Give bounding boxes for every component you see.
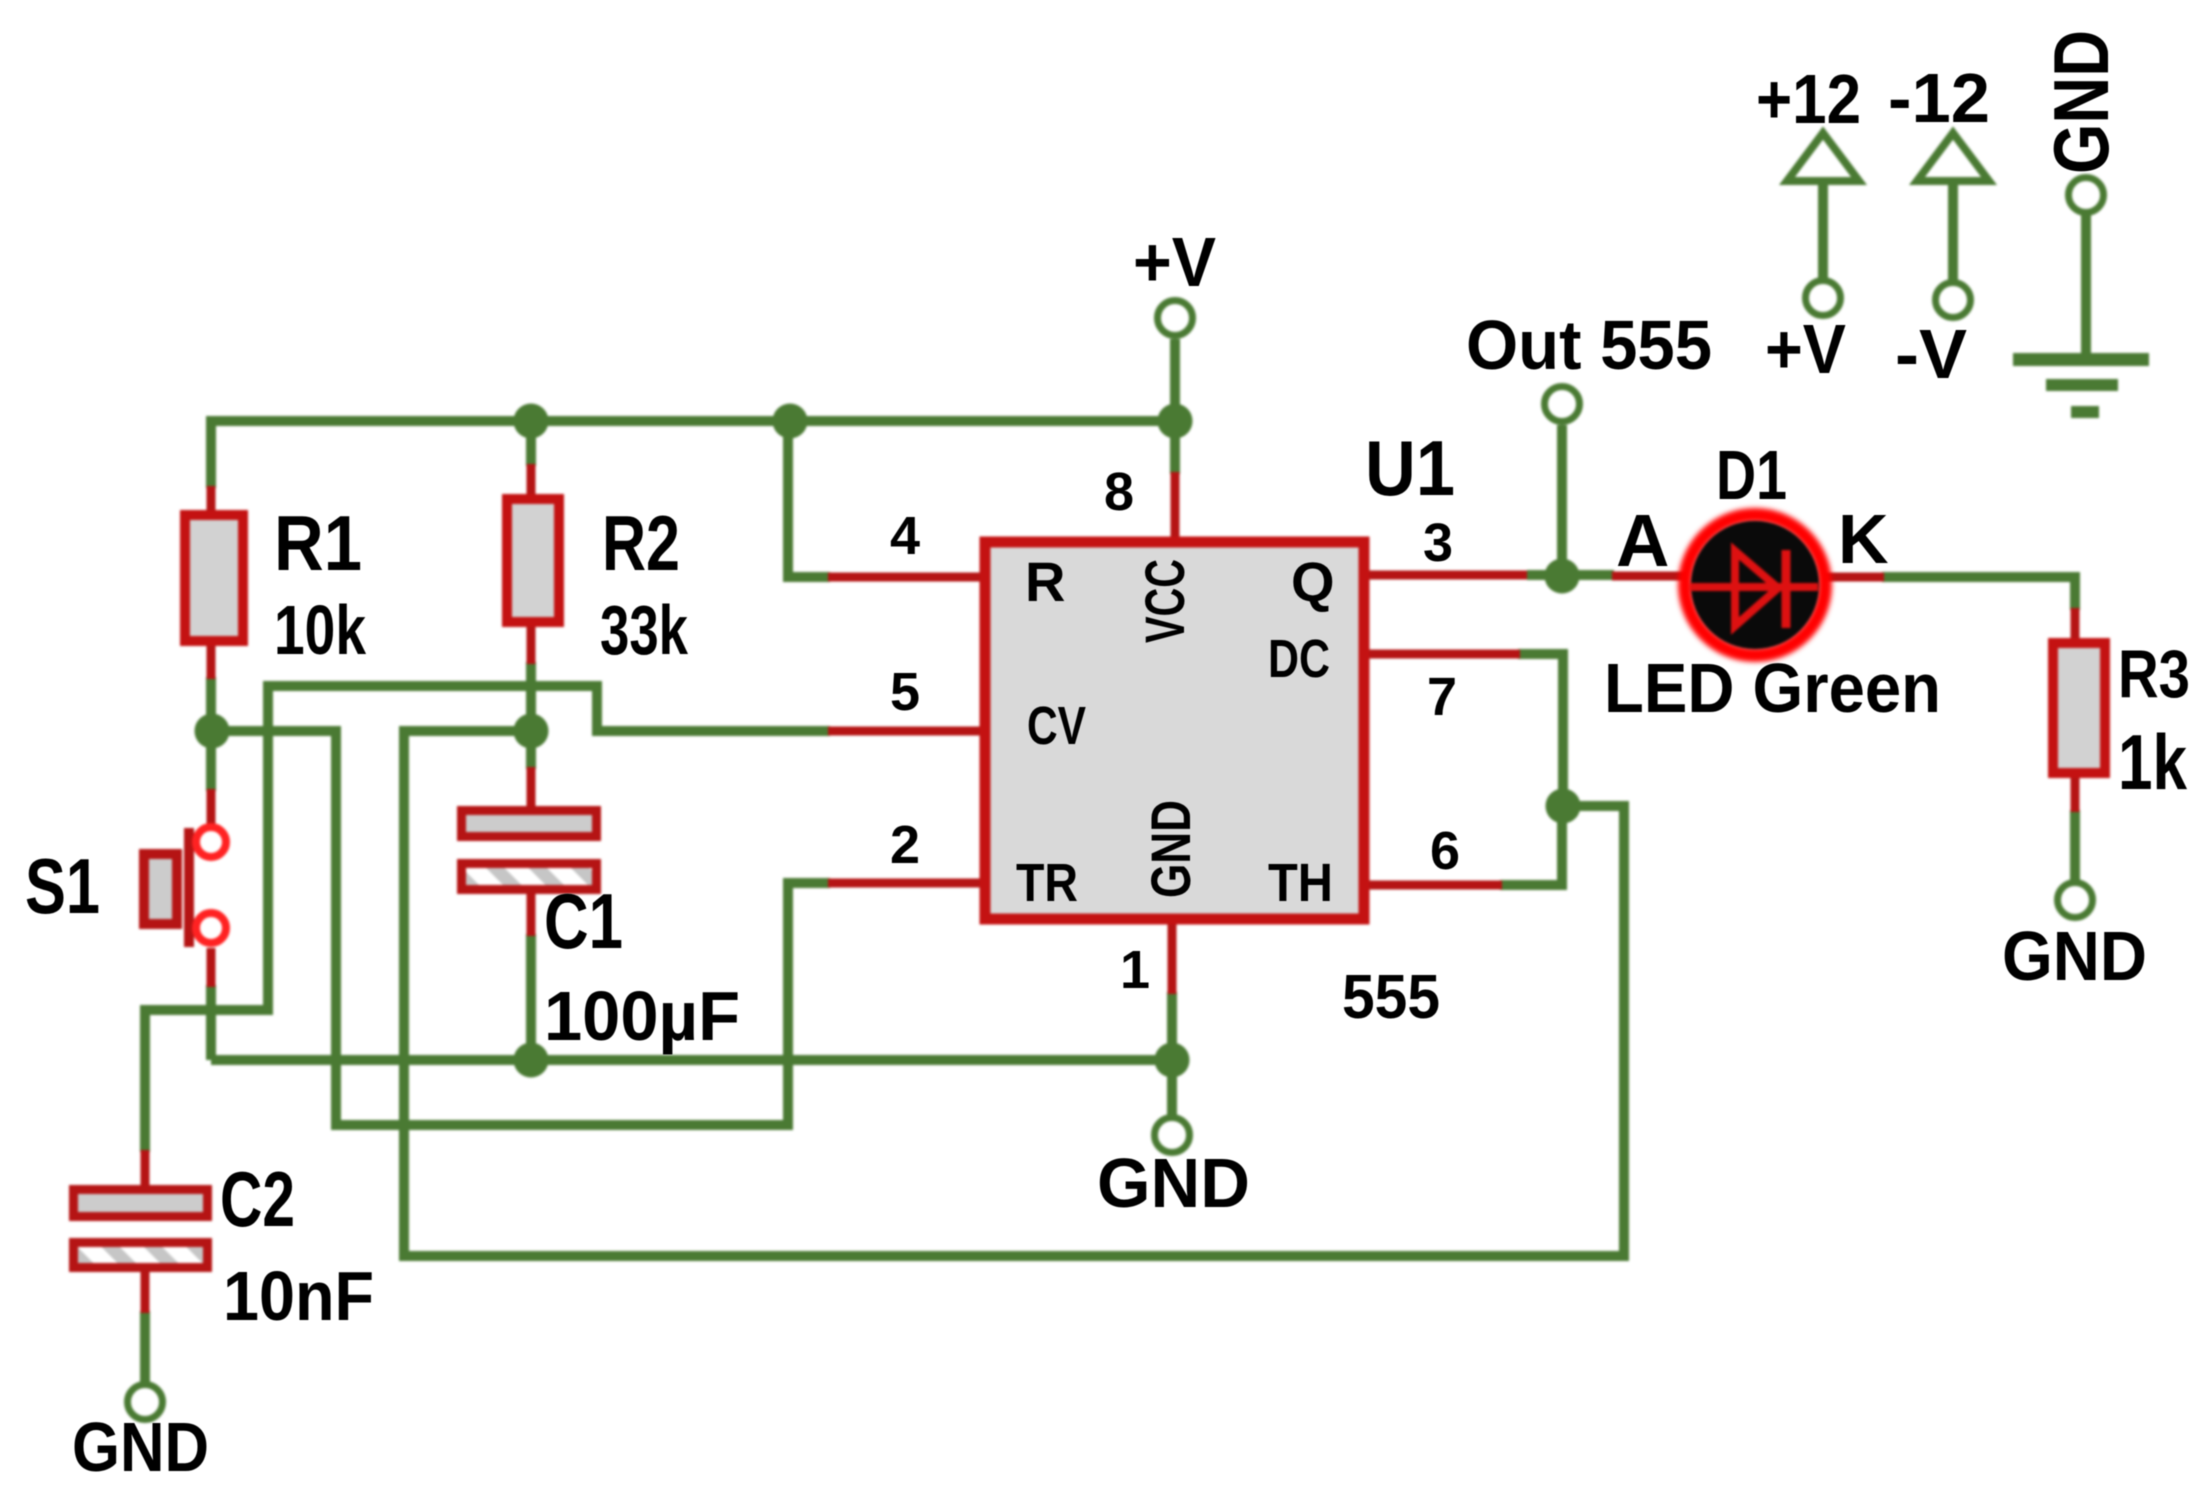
svg-text:555: 555 <box>1342 963 1440 1032</box>
svg-text:K: K <box>1838 500 1889 578</box>
svg-text:A: A <box>1616 499 1669 582</box>
svg-text:DC: DC <box>1268 629 1330 689</box>
svg-text:GND: GND <box>2002 917 2147 995</box>
svg-text:3: 3 <box>1423 513 1453 573</box>
stub LED cathode <box>1826 573 1884 582</box>
wire +V stem to pin 8 <box>1170 339 1180 474</box>
stub C1 top <box>527 767 536 808</box>
power +12 symbol <box>1818 182 1828 279</box>
wire R1 top <box>206 416 216 488</box>
svg-text:10nF: 10nF <box>223 1257 374 1335</box>
stub pin 2 <box>828 879 982 888</box>
svg-text:Out 555: Out 555 <box>1466 306 1712 384</box>
svg-text:100µF: 100µF <box>544 977 740 1055</box>
svg-text:1: 1 <box>1120 940 1150 1000</box>
switch S1 bottom contact <box>196 913 226 943</box>
power -12 symbol <box>1948 182 1958 281</box>
svg-text:R2: R2 <box>602 499 680 587</box>
svg-text:GND: GND <box>1139 800 1202 898</box>
svg-text:R: R <box>1025 550 1065 613</box>
stub R1 bottom <box>207 644 216 679</box>
switch S1 actuator bar <box>184 828 194 947</box>
wire S1/C1 ground rail <box>211 1055 1172 1065</box>
wire Q output green <box>1527 570 1614 580</box>
wire pin1 GND <box>1167 992 1177 1116</box>
wire Out 555 stem <box>1557 425 1567 576</box>
terminal +V top center <box>1158 301 1193 336</box>
stub R1 top <box>207 486 216 514</box>
svg-text:-12: -12 <box>1888 59 1990 137</box>
stub C2 top <box>141 1150 150 1187</box>
terminal GND C2 <box>128 1385 163 1420</box>
wire R2 junction to TH route <box>404 731 1624 1256</box>
ground symbol top right <box>2081 215 2091 366</box>
svg-text:R1: R1 <box>274 499 362 587</box>
svg-text:+V: +V <box>1765 310 1846 388</box>
wire S1 bottom <box>206 985 216 1060</box>
svg-text:S1: S1 <box>25 842 100 930</box>
svg-text:CV: CV <box>1027 696 1086 756</box>
switch S1 body <box>144 854 177 924</box>
stub R3 top <box>2071 608 2080 642</box>
svg-text:TR: TR <box>1016 853 1078 913</box>
stub pin 1 <box>1168 921 1177 994</box>
svg-text:C1: C1 <box>544 877 623 965</box>
svg-text:D1: D1 <box>1716 436 1787 514</box>
svg-text:VCC: VCC <box>1133 559 1196 643</box>
svg-text:GND: GND <box>2037 30 2125 174</box>
switch S1 top contact <box>196 827 226 857</box>
stub R2 top <box>527 464 536 498</box>
svg-text:+V: +V <box>1133 223 1216 301</box>
svg-text:5: 5 <box>890 662 920 722</box>
stub C2 bottom <box>141 1270 150 1313</box>
svg-text:7: 7 <box>1427 667 1457 727</box>
resistor R3 <box>2053 643 2105 773</box>
stub LED anode <box>1612 572 1684 581</box>
stub S1 top <box>207 789 216 824</box>
svg-text:33k: 33k <box>600 591 688 669</box>
svg-text:8: 8 <box>1104 462 1134 522</box>
stub pin 5 <box>828 727 982 736</box>
wire TH to junction <box>1500 806 1562 885</box>
IC U1 555 body <box>985 542 1364 919</box>
wire C2 bottom to GND <box>140 1311 150 1383</box>
stub C1 bottom <box>527 892 536 936</box>
stub R3 bottom <box>2071 776 2080 812</box>
wire LED K to R3 <box>1882 577 2075 610</box>
LED D1 <box>1685 515 1825 655</box>
stub pin 8 <box>1171 472 1180 540</box>
svg-text:U1: U1 <box>1365 424 1455 512</box>
svg-text:4: 4 <box>890 506 920 566</box>
wire DC to junction <box>1518 654 1563 806</box>
svg-text:1k: 1k <box>2118 718 2187 806</box>
resistor R1 <box>185 515 243 641</box>
svg-text:+12: +12 <box>1756 60 1861 138</box>
junction dots <box>514 404 549 439</box>
svg-text:C2: C2 <box>220 1155 295 1243</box>
terminal Out 555 <box>1545 387 1580 422</box>
svg-text:GND: GND <box>1097 1144 1250 1222</box>
svg-text:-V: -V <box>1895 315 1967 393</box>
capacitor C1 bottom plate (hatched) <box>462 864 597 890</box>
terminal GND R3 <box>2058 883 2093 918</box>
wire R2 bottom <box>526 662 536 731</box>
stub pin 7 <box>1368 650 1520 659</box>
wire R1 junction to TR route <box>211 731 830 1125</box>
stub R2 bottom <box>527 625 536 664</box>
capacitor C1 top plate <box>462 811 597 837</box>
stub S1 bottom <box>207 948 216 987</box>
wire top +V rail <box>211 416 1175 426</box>
wire R2 top <box>526 421 536 466</box>
wire pin4 reset vertical <box>788 421 830 577</box>
svg-text:6: 6 <box>1430 821 1460 881</box>
capacitor C2 bottom plate (hatched) <box>74 1243 208 1268</box>
svg-text:10k: 10k <box>274 591 366 669</box>
svg-text:TH: TH <box>1268 853 1333 913</box>
svg-text:Q: Q <box>1291 550 1335 613</box>
svg-text:2: 2 <box>890 815 920 875</box>
svg-text:LED Green: LED Green <box>1604 649 1941 727</box>
wire R1 bottom to S1 <box>206 677 216 791</box>
wire R3 bottom to GND <box>2070 810 2080 881</box>
stub pin 4 <box>828 573 982 582</box>
capacitor C2 top plate <box>74 1190 208 1217</box>
stub pin 6 <box>1368 881 1502 890</box>
resistor R2 <box>507 499 559 622</box>
svg-text:GND: GND <box>72 1408 209 1486</box>
wire R2 junction to C1 <box>526 731 536 769</box>
wire C2 top to CV route <box>145 686 830 1152</box>
wire C1 bottom to ground rail <box>526 934 536 1060</box>
terminal GND pin1 <box>1155 1118 1190 1153</box>
svg-text:R3: R3 <box>2118 636 2190 712</box>
stub pin 3 <box>1368 571 1527 580</box>
